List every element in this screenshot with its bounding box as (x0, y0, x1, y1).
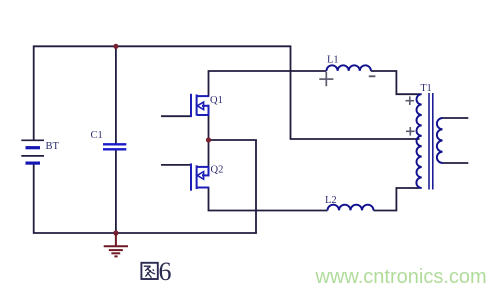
svg-text:BT: BT (46, 141, 60, 152)
wire bottom rail (34, 164, 257, 234)
battery BT (21, 140, 44, 163)
wire L1 to transformer top (371, 71, 421, 94)
svg-text:T1: T1 (421, 83, 432, 94)
wire Q1 gate lead (161, 115, 191, 117)
svg-text:Q1: Q1 (210, 95, 223, 106)
wire node to bottom rail (209, 140, 257, 233)
wire Q1 source to node (208, 115, 210, 141)
svg-text:L1: L1 (327, 54, 339, 65)
caption figure 6 glyph (141, 263, 157, 279)
transformer T1 primary winding (416, 94, 421, 188)
inductor L1 (327, 65, 371, 71)
polarity plus primary top (406, 96, 415, 105)
polarity plus L1 (319, 72, 333, 86)
wire top rail (34, 46, 291, 140)
node junction bottom (113, 230, 118, 235)
wire secondary bottom lead (443, 162, 469, 164)
transistor Q1 (191, 94, 209, 117)
svg-text:www.cntronics.com: www.cntronics.com (315, 266, 487, 288)
inductor L2 (328, 205, 374, 211)
wire Q2 drain (208, 139, 210, 167)
transformer T1 secondary winding (437, 118, 443, 163)
svg-text:6: 6 (159, 257, 172, 286)
wire L2 to transformer bottom (374, 188, 420, 211)
svg-text:C1: C1 (91, 130, 103, 141)
polarity plus primary center (406, 127, 415, 136)
transformer T1 core (429, 93, 433, 190)
polarity minus L1 (369, 75, 376, 77)
wire secondary top lead (443, 117, 469, 119)
transistor Q2 (191, 163, 209, 190)
node junction Q1-Q2 (206, 137, 211, 142)
wire capacitor bottom branch (115, 149, 117, 233)
ground (104, 233, 128, 256)
svg-text:L2: L2 (325, 195, 337, 206)
wire Q2 gate lead (161, 164, 191, 166)
capacitor C1 (103, 144, 126, 149)
svg-text:Q2: Q2 (211, 165, 224, 176)
node junction top (113, 44, 118, 49)
wire capacitor top branch (115, 46, 117, 144)
wire Q1 drain to L1 (209, 71, 327, 96)
wire center-tap feed (290, 138, 420, 140)
wire Q2 source to L2 (209, 188, 328, 211)
